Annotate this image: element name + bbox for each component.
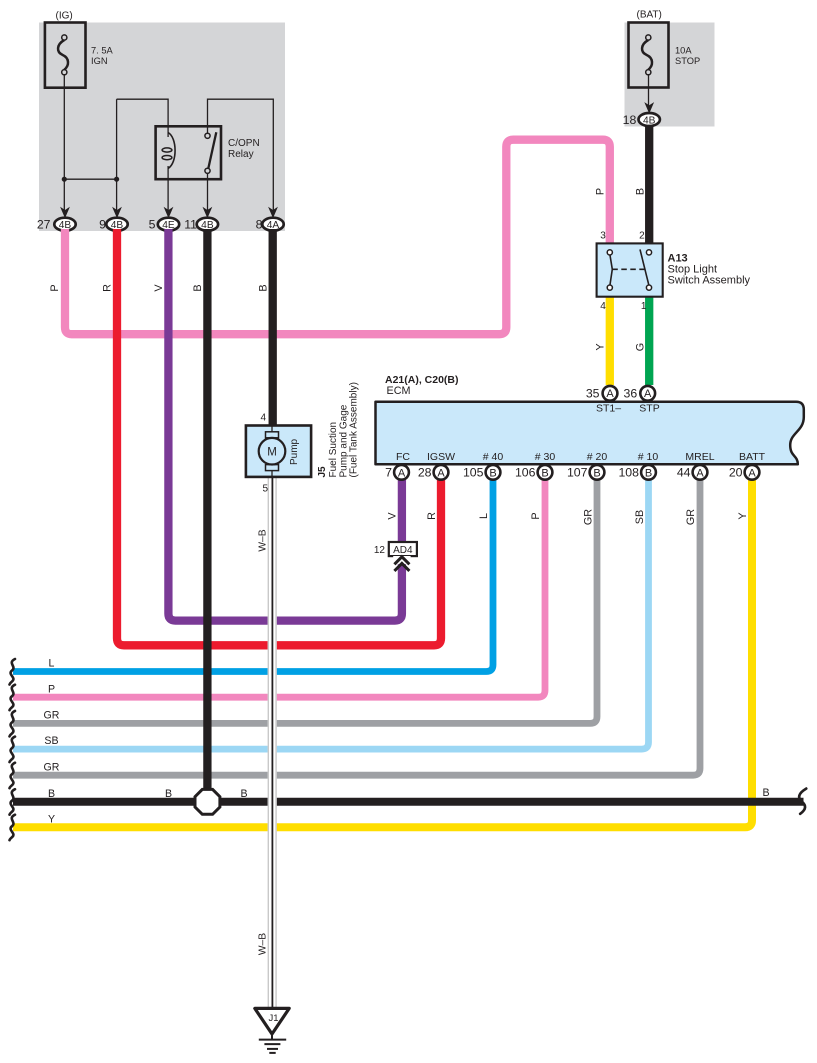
svg-text:MREL: MREL — [685, 451, 714, 463]
svg-text:A: A — [748, 467, 756, 479]
A13 left blade — [610, 255, 612, 285]
svg-text:B: B — [489, 467, 496, 479]
svg-text:L: L — [478, 513, 490, 519]
connector 5 (4E) — [158, 218, 179, 231]
fuse IGN box — [45, 23, 86, 88]
ECM bottom pin 106 (B) — [538, 465, 553, 480]
AD4 shield chevrons — [394, 557, 409, 565]
svg-text:108: 108 — [618, 466, 639, 480]
wire coil bottom to pin 5 — [167, 166, 169, 211]
ECM bottom pin 20 (A) — [745, 465, 760, 480]
ground hatch — [259, 1039, 286, 1041]
svg-text:27: 27 — [37, 218, 51, 232]
svg-text:Switch Assembly: Switch Assembly — [668, 275, 751, 287]
wire B black 18-to-A13pin2 — [645, 125, 653, 244]
svg-text:W–B: W–B — [258, 529, 269, 551]
wire top horizontal to coil — [117, 99, 169, 137]
pump motor lead top — [271, 426, 273, 434]
break squiggle GR — [10, 711, 16, 737]
ECM bottom pin 7 (A) — [394, 465, 409, 480]
connector 18 (4B) — [639, 113, 660, 126]
A13 dashed link — [612, 268, 645, 270]
svg-text:A: A — [606, 388, 614, 400]
break squiggle SB — [10, 737, 16, 763]
svg-text:(Fuel Tank Assembly): (Fuel Tank Assembly) — [348, 382, 359, 477]
A13 Stop Light Switch box — [597, 243, 663, 296]
svg-text:GR: GR — [44, 710, 60, 722]
pump motor circle M — [259, 438, 286, 465]
svg-text:(IG): (IG) — [56, 11, 73, 22]
svg-text:V: V — [387, 512, 399, 520]
svg-text:Y: Y — [595, 343, 607, 350]
fuse IGN element — [58, 40, 68, 70]
svg-text:18: 18 — [623, 113, 637, 127]
svg-text:# 40: # 40 — [483, 451, 504, 463]
svg-text:5: 5 — [262, 484, 268, 495]
svg-text:IGSW: IGSW — [427, 451, 455, 463]
svg-text:107: 107 — [567, 466, 588, 480]
arrow pin 11 — [203, 207, 213, 219]
svg-text:A: A — [644, 388, 652, 400]
svg-text:3: 3 — [600, 231, 606, 242]
junction octagon — [195, 789, 220, 814]
AD4 connector box — [389, 542, 417, 556]
svg-text:10A: 10A — [675, 46, 692, 56]
wire Y yellow A13pin4-to-35A — [606, 296, 614, 385]
ECM top pin 36 (A) — [640, 386, 655, 401]
svg-text:9: 9 — [99, 218, 106, 232]
svg-text:BATT: BATT — [739, 451, 766, 463]
svg-text:A: A — [437, 467, 445, 479]
gray block BAT — [625, 23, 715, 127]
svg-text:W–B: W–B — [258, 933, 269, 955]
pump brush top — [266, 432, 279, 438]
break squiggle B — [10, 789, 16, 815]
A13 right blade — [640, 249, 649, 285]
pump motor lead bottom — [271, 469, 273, 477]
svg-text:B: B — [541, 467, 548, 479]
svg-text:Pump: Pump — [289, 438, 300, 465]
ECM bottom pin 105 (B) — [486, 465, 501, 480]
svg-text:B: B — [240, 788, 247, 800]
wire L blue #40-to-bus — [13, 478, 493, 672]
svg-text:R: R — [426, 512, 438, 520]
connector 9 (4B) — [106, 218, 127, 231]
svg-text:B: B — [635, 188, 647, 195]
svg-text:4: 4 — [260, 413, 266, 424]
svg-text:4: 4 — [600, 301, 606, 312]
svg-text:2: 2 — [639, 231, 645, 242]
svg-text:Relay: Relay — [228, 149, 254, 160]
svg-text:7: 7 — [385, 466, 392, 480]
wire V violet 5-to-FC — [168, 229, 402, 621]
relay switch blade — [208, 132, 216, 168]
svg-text:P: P — [49, 284, 61, 291]
svg-text:36: 36 — [624, 386, 638, 400]
wire P pink 27-to-A13pin3 — [65, 140, 610, 335]
arrow pin 9 — [112, 207, 122, 219]
arrow pin 27 — [60, 207, 70, 219]
break squiggle Y — [10, 815, 16, 841]
ECM bottom pin 44 (A) — [693, 465, 708, 480]
wire Y yellow BATT-to-bus — [13, 478, 752, 827]
wire SB skyblue #10-to-bus — [13, 478, 649, 749]
svg-text:A: A — [696, 467, 704, 479]
svg-text:V: V — [153, 284, 165, 292]
svg-text:35: 35 — [586, 386, 600, 400]
wire switch top to pin 8 — [208, 99, 274, 211]
relay C/OPN box — [156, 126, 221, 179]
svg-text:B: B — [645, 467, 652, 479]
svg-text:B: B — [192, 284, 204, 291]
svg-text:8: 8 — [256, 218, 263, 232]
connector 11 (4B) — [197, 218, 218, 231]
pump box — [246, 426, 311, 477]
svg-text:M: M — [267, 446, 277, 458]
svg-text:Y: Y — [737, 512, 749, 519]
ECM bottom pin 107 (B) — [590, 465, 605, 480]
svg-text:ECM: ECM — [387, 385, 411, 397]
wire pin 9 vertical — [116, 99, 118, 211]
wire B black bus — [13, 798, 804, 806]
fuse STOP element — [642, 40, 652, 70]
svg-text:11: 11 — [184, 218, 197, 232]
svg-text:B: B — [48, 788, 55, 800]
arrow pin 18 — [644, 102, 654, 114]
wire fuse IGN down to pin 27 — [63, 75, 65, 211]
svg-text:Fuel Suction: Fuel Suction — [328, 422, 339, 478]
ECM top pin 35 (A) — [603, 386, 618, 401]
wire W-B pump-to-ground — [268, 477, 276, 1008]
ECM bottom pin 108 (B) — [641, 465, 656, 480]
svg-text:P: P — [595, 188, 607, 195]
ECM box — [376, 402, 804, 465]
ground J1 triangle — [255, 1008, 289, 1034]
wire fuse STOP to pin 18 — [648, 75, 650, 107]
svg-text:# 10: # 10 — [638, 451, 659, 463]
svg-text:105: 105 — [463, 466, 484, 480]
svg-text:B: B — [165, 788, 172, 800]
wire B black 8-to-pump — [269, 229, 277, 425]
svg-text:B: B — [762, 787, 769, 799]
svg-text:28: 28 — [418, 466, 432, 480]
svg-text:P: P — [48, 683, 55, 695]
ECM bottom pin 28 (A) — [434, 465, 449, 480]
AD4 shield mask — [393, 556, 410, 564]
svg-text:FC: FC — [396, 451, 410, 463]
svg-text:J5: J5 — [317, 466, 328, 478]
break squiggle P — [10, 685, 16, 711]
svg-text:P: P — [530, 512, 542, 519]
relay switch contact top — [205, 133, 210, 138]
svg-text:G: G — [635, 343, 647, 351]
svg-text:5: 5 — [149, 218, 156, 232]
svg-text:IGN: IGN — [91, 56, 108, 66]
connector 27 (4B) — [54, 218, 75, 231]
svg-text:STOP: STOP — [675, 56, 700, 66]
svg-text:20: 20 — [729, 466, 743, 480]
arrow pin 8 — [268, 207, 278, 219]
wire horizontal junction — [64, 178, 116, 180]
svg-text:# 20: # 20 — [587, 451, 608, 463]
svg-text:(BAT): (BAT) — [637, 10, 662, 21]
break squiggle B right — [799, 789, 806, 814]
svg-text:B: B — [593, 467, 600, 479]
svg-text:1: 1 — [641, 301, 647, 312]
svg-text:L: L — [49, 658, 55, 670]
relay switch contact bottom — [205, 168, 210, 173]
junction dot A — [62, 177, 67, 182]
wire GR gray #20-to-bus — [13, 478, 597, 723]
wire pump pin4 lead — [271, 424, 273, 437]
A13 pin contacts — [607, 250, 612, 255]
svg-text:SB: SB — [44, 735, 58, 747]
svg-text:R: R — [102, 284, 114, 292]
wire switch bottom to pin 11 — [207, 174, 209, 212]
wire R red 9-to-IGSW — [117, 229, 441, 645]
relay coil — [168, 133, 175, 169]
svg-text:AD4: AD4 — [393, 545, 413, 556]
svg-text:J1: J1 — [268, 1013, 278, 1024]
pump brush bottom — [266, 465, 279, 471]
wire P pink #30-to-bus — [13, 478, 545, 697]
svg-text:SB: SB — [634, 510, 646, 524]
svg-text:STP: STP — [639, 402, 659, 414]
connector 8 (4A) — [262, 218, 283, 231]
break squiggle GR2 — [10, 763, 16, 789]
wire G green A13pin1-to-36A — [645, 296, 653, 385]
svg-text:GR: GR — [685, 509, 697, 525]
svg-text:B: B — [258, 284, 270, 291]
svg-text:ST1–: ST1– — [596, 402, 621, 414]
junction dot B — [114, 177, 119, 182]
svg-text:106: 106 — [515, 466, 536, 480]
break squiggle L — [10, 659, 16, 685]
svg-text:44: 44 — [677, 466, 691, 480]
svg-text:# 30: # 30 — [535, 451, 556, 463]
arrow pin 5 — [164, 207, 174, 219]
fuse STOP box — [629, 23, 669, 88]
svg-text:4B: 4B — [643, 115, 656, 126]
svg-text:C/OPN: C/OPN — [228, 138, 260, 149]
svg-text:GR: GR — [583, 509, 595, 525]
wire GR gray MREL-to-bus — [13, 478, 700, 775]
svg-text:GR: GR — [44, 761, 60, 773]
svg-text:12: 12 — [374, 545, 386, 556]
svg-text:A: A — [398, 467, 406, 479]
gray block IG — [39, 23, 285, 232]
wire B black 11-to-junction — [203, 229, 211, 800]
svg-text:7. 5A: 7. 5A — [91, 46, 114, 56]
svg-text:Y: Y — [48, 813, 55, 825]
